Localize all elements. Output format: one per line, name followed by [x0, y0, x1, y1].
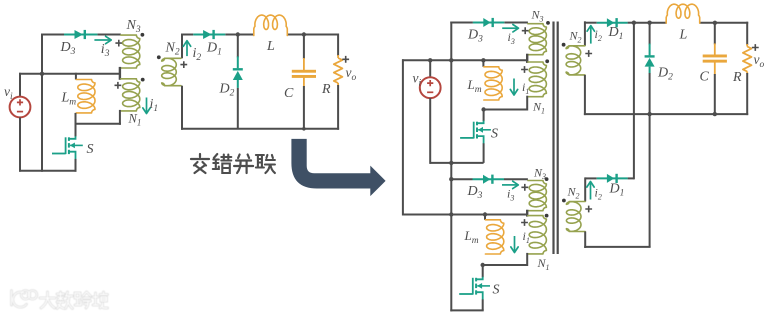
inductor L right	[666, 4, 700, 23]
current arrow i2 sec1	[590, 27, 592, 44]
wire p1 Vi rail	[402, 59, 528, 61]
wire sec top rail	[584, 22, 596, 24]
current arrow i3 phase2	[502, 184, 517, 186]
diode D1 sec1	[597, 22, 628, 24]
dot mark N3 phase2	[545, 177, 549, 181]
diode D2 right	[649, 23, 651, 45]
polarity + vo right	[752, 44, 759, 51]
junction C top right	[713, 21, 717, 25]
current arrow i3 phase1	[502, 27, 517, 29]
wire Lm stub	[75, 73, 77, 80]
junction drain p2	[481, 263, 485, 267]
diode D3 phase2	[473, 178, 505, 180]
wire sec2 top rail	[585, 177, 597, 179]
wire p2 center tap	[526, 210, 528, 217]
text interleave-parallel 并	[234, 155, 253, 174]
dot mark N2 sec2	[562, 199, 566, 203]
wire right outer-left bus	[402, 59, 404, 215]
current arrow i3	[94, 39, 110, 41]
transformer core bar 1	[552, 22, 554, 255]
diode D3	[64, 34, 97, 36]
capacitor C right	[714, 23, 716, 45]
text interleave-parallel 联	[256, 155, 275, 173]
junction Lm top p2	[483, 212, 487, 216]
svg-text:R: R	[732, 70, 742, 85]
wire p1 mid node	[483, 109, 528, 111]
wire left bottom rail	[19, 170, 77, 172]
svg-text:C: C	[700, 70, 710, 85]
polarity + N1 phase1	[521, 66, 528, 73]
dot mark N1	[141, 78, 145, 82]
transformer winding N2 left	[162, 58, 181, 85]
wire sec2 N2 bottom lead	[584, 232, 586, 249]
transformer winding N1 phase2	[528, 216, 547, 254]
junction p1 bottom	[449, 161, 453, 165]
junction D2 top right	[647, 21, 651, 25]
junction p2 top tee	[449, 177, 453, 181]
wire drain	[75, 113, 77, 137]
dot mark N2 left	[157, 55, 161, 59]
wire N1 bottom	[119, 110, 121, 125]
diode D2 left	[237, 35, 239, 58]
wire p2 top rail	[451, 178, 472, 180]
inductor Lm phase1	[482, 59, 484, 67]
junction C bottom right	[713, 112, 717, 116]
svg-text:S: S	[491, 127, 498, 142]
wire p1 source	[483, 143, 485, 163]
polarity + N2 sec1	[585, 50, 592, 57]
dot mark N1 phase2	[545, 214, 549, 218]
junction D2 top	[236, 32, 240, 36]
wire mid node	[75, 123, 121, 125]
wire sec2 bottom rail	[584, 246, 650, 248]
transformer winding N1 phase1	[528, 62, 547, 97]
wire sec2 N2 top lead	[584, 177, 586, 201]
resistor R left	[337, 34, 339, 57]
wire secondary bottom rail	[181, 128, 339, 130]
svg-text:R: R	[321, 82, 331, 97]
svg-text:S: S	[87, 142, 94, 157]
polarity + vo left	[342, 56, 349, 63]
wire sec1 bottom rail	[584, 113, 748, 115]
inductor L left-circuit	[254, 15, 287, 35]
wire p2 drain	[482, 264, 484, 277]
transistor S phase2	[476, 277, 483, 280]
transistor S left	[68, 136, 75, 139]
junction bus cross p2	[449, 212, 453, 216]
transformer winding N3 left	[121, 35, 140, 68]
dot mark N3	[141, 33, 145, 37]
wire right vertical bus D3-anode	[450, 22, 452, 312]
wire p2 Vi rail	[402, 214, 528, 216]
transistor S phase1	[476, 121, 483, 124]
inductor Lm left	[76, 80, 95, 113]
resistor R right	[746, 22, 748, 45]
diode D1 sec2	[597, 177, 628, 179]
wire p1 center tap	[526, 54, 528, 63]
junction	[40, 72, 44, 76]
wire p2 bottom	[450, 309, 483, 311]
polarity + N3 phase2	[521, 184, 528, 191]
transformer winding N3 phase2	[528, 181, 547, 211]
svg-text:L: L	[266, 39, 275, 54]
wire s1 N2 bottom lead	[584, 75, 586, 115]
transformer winding N1 left	[121, 79, 140, 111]
polarity + N2 left	[180, 61, 187, 68]
svg-text:L: L	[679, 28, 688, 43]
wire p1 top rail	[450, 22, 473, 24]
wire p1 drain	[483, 109, 485, 122]
wire p1 bottom	[430, 162, 483, 164]
current arrow i1 phase1	[513, 79, 515, 94]
junction Vi top	[428, 58, 432, 62]
dot mark N3 phase1	[546, 21, 550, 25]
wire source	[75, 159, 77, 172]
dot mark N1 phase1	[545, 59, 549, 63]
wire sec2 D1 bus	[633, 22, 635, 180]
voltage source Vi left	[19, 73, 21, 97]
wire N2 bottom lead	[181, 86, 183, 130]
inductor Lm phase2	[484, 214, 486, 220]
junction D1 out	[632, 21, 636, 25]
polarity + N1 left	[115, 82, 122, 89]
wire secondary top rail	[181, 34, 193, 36]
wire p2 source	[482, 299, 484, 310]
current arrow i2 left	[186, 42, 188, 56]
transformer core bar 2	[557, 22, 559, 255]
wire Vi+ rail	[19, 73, 121, 75]
transformer winding N2 sec1	[566, 46, 585, 75]
junction C bottom	[302, 127, 306, 131]
svg-text:C: C	[284, 86, 294, 101]
junction D2 mid	[647, 112, 651, 116]
diode D1 left	[193, 34, 225, 36]
wire p2 mid node	[482, 264, 528, 266]
wire s1 N2 top lead	[584, 21, 586, 46]
svg-text:S: S	[493, 283, 500, 298]
junction bus cross p1	[449, 58, 453, 62]
transform arrow	[291, 139, 385, 196]
junction Lm top p1	[481, 58, 485, 62]
polarity + N3 phase1	[522, 27, 529, 34]
polarity + N3 left	[115, 40, 122, 47]
text interleave-parallel 错	[213, 154, 232, 173]
voltage source Vi right	[429, 59, 431, 77]
current arrow i1 phase2	[514, 236, 516, 251]
wire N2 top lead	[181, 34, 183, 59]
transformer winding N2 sec2	[566, 202, 585, 232]
wire left vertical bus	[41, 34, 43, 172]
polarity + N2 sec2	[585, 206, 592, 213]
junction C top	[302, 32, 306, 36]
polarity + N1 phase2	[521, 219, 528, 226]
current arrow i2 sec2	[590, 183, 592, 200]
text interleave-parallel 交	[191, 154, 209, 173]
dot mark N2 sec1	[562, 43, 566, 47]
junction drain p1	[481, 107, 485, 111]
wire left top rail	[41, 34, 64, 36]
current arrow i1	[146, 98, 148, 113]
capacitor C left	[303, 35, 305, 60]
diode D3 phase1	[473, 22, 504, 24]
wire center tap	[119, 67, 121, 80]
transformer winding N3 phase1	[528, 24, 547, 55]
